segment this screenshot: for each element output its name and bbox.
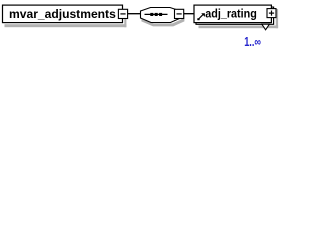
svg-text:mvar_adjustments: mvar_adjustments: [9, 7, 116, 21]
svg-text:adj_rating: adj_rating: [205, 7, 256, 21]
svg-text:1..∞: 1..∞: [244, 35, 261, 49]
